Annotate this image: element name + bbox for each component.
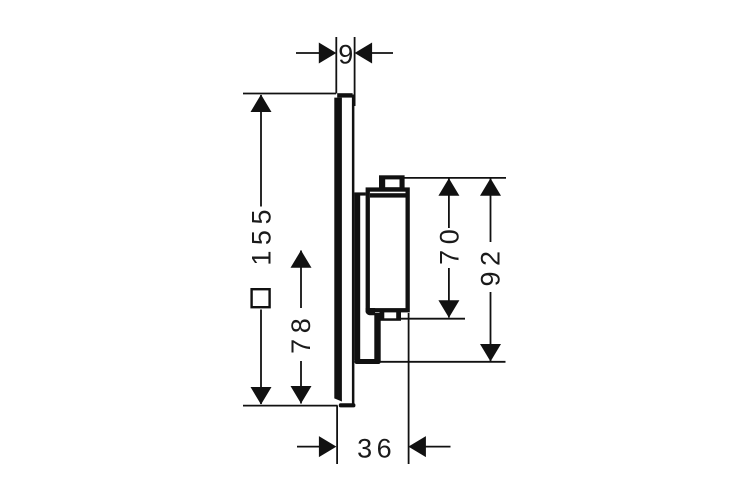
sleeve top rim — [354, 192, 365, 195]
dim 9: left leader — [296, 52, 320, 54]
dim 9: right arrow — [355, 43, 373, 64]
dim 155: down arrow — [251, 387, 272, 405]
dim 70: down arrow — [438, 300, 459, 318]
dim 92: line lower segment — [490, 292, 492, 361]
dim 155/78: bottom extension line — [243, 405, 338, 407]
dim 155: square symbol — [252, 289, 270, 307]
svg-text:9: 9 — [338, 40, 353, 70]
dim 92: line upper segment — [490, 178, 492, 242]
sleeve behind plate — [354, 193, 360, 360]
dim 70: bottom extension line — [400, 318, 465, 320]
dim 92: bottom extension line — [378, 361, 506, 363]
dim 36: left arrow — [319, 436, 337, 457]
dim 92: down arrow — [480, 344, 501, 362]
dim 9: extension line left — [335, 37, 337, 94]
plate (escutcheon side view) — [334, 93, 355, 407]
dim 92: up arrow — [480, 178, 501, 196]
dim 70: up arrow — [438, 178, 459, 196]
dim 155: line upper segment — [260, 95, 262, 207]
housing lower band — [374, 313, 380, 361]
dim 155: line lower segment — [260, 310, 262, 405]
svg-text:36: 36 — [357, 434, 396, 464]
dim 9: right leader — [371, 52, 393, 54]
body bottom-left flange — [366, 308, 375, 315]
dim 9: left arrow — [319, 43, 337, 64]
dim 78: line lower segment — [300, 361, 302, 404]
dim 70: line upper segment — [448, 178, 450, 228]
svg-text:70: 70 — [435, 224, 465, 265]
top knob — [379, 175, 405, 191]
bottom knob — [380, 310, 402, 321]
dim 78: up arrow — [291, 250, 312, 267]
svg-text:92: 92 — [475, 245, 505, 286]
dim 36: right extension line — [408, 313, 410, 464]
dim 155: up arrow — [251, 95, 272, 113]
dim 36: right arrow — [408, 436, 426, 457]
dim 36: left leader — [297, 446, 320, 448]
svg-text:155: 155 — [246, 204, 276, 266]
dim 36: right leader — [425, 446, 451, 448]
dim 78: line upper segment — [300, 251, 302, 309]
dim 70: line lower segment — [448, 268, 450, 318]
svg-text:78: 78 — [286, 313, 316, 354]
dim 70/92: top extension line — [401, 177, 506, 179]
dim 36: left extension line — [336, 406, 338, 465]
dim 9: extension line right — [354, 37, 356, 106]
body (valve cartridge) — [366, 187, 410, 312]
dim 78: down arrow — [291, 386, 312, 404]
dim 155: top extension line — [243, 93, 336, 95]
housing bottom bar — [354, 359, 380, 364]
